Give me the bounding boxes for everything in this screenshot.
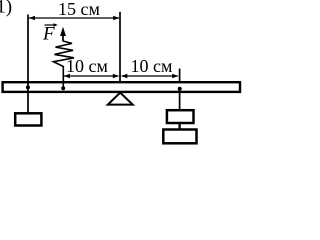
node right attachment tick	[179, 69, 181, 83]
dimension line 10 см right	[121, 74, 178, 78]
svg-text:15 см: 15 см	[58, 0, 100, 19]
node left attachment vertical line	[27, 15, 29, 83]
force arrow F	[60, 27, 66, 42]
right lower weight	[163, 130, 196, 144]
fulcrum	[108, 93, 133, 105]
wire weight connector	[178, 124, 180, 129]
left weight	[15, 113, 41, 125]
right upper weight	[167, 110, 194, 123]
svg-text:10 см: 10 см	[66, 56, 108, 76]
node spring-beam junction dot	[61, 86, 65, 90]
node center vertical line above fulcrum	[119, 12, 121, 82]
force label F vector	[42, 23, 58, 44]
node right weight junction dot	[178, 87, 182, 91]
wire spring attachment inside beam	[62, 82, 64, 88]
wire left weight hanger	[27, 82, 29, 113]
wire right weight hanger	[179, 87, 181, 110]
svg-text:F: F	[42, 24, 55, 45]
node left weight junction dot	[26, 85, 30, 89]
dimension line 10 см left	[64, 74, 119, 78]
dimension line 15 см	[29, 16, 119, 20]
svg-text:1): 1)	[0, 0, 12, 18]
spring	[54, 41, 75, 82]
beam	[3, 82, 240, 92]
svg-text:10 см: 10 см	[130, 56, 172, 76]
